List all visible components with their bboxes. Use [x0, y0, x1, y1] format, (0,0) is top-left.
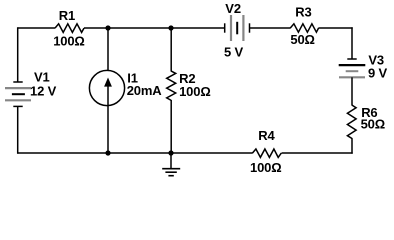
- svg-text:R1: R1: [59, 8, 75, 23]
- wire R2 branch bottom: [170, 100, 172, 153]
- junction node top of I1: [105, 25, 110, 30]
- wire left rail bottom: [17, 106, 19, 153]
- wire right rail R6 to bottom corner: [351, 138, 353, 154]
- svg-text:100Ω: 100Ω: [179, 84, 211, 99]
- current source I1: [89, 70, 124, 106]
- svg-text:100Ω: 100Ω: [250, 160, 282, 175]
- wire bottom rail right of R4: [282, 152, 353, 154]
- wire I1 branch bottom: [107, 106, 109, 153]
- resistor R6: [347, 105, 356, 138]
- wire bottom rail left of R4: [17, 152, 252, 154]
- battery V1: [5, 82, 31, 106]
- svg-text:9 V: 9 V: [368, 66, 388, 81]
- svg-text:V1: V1: [34, 70, 50, 85]
- svg-text:20mA: 20mA: [127, 83, 163, 98]
- wire right rail V3 to R6: [351, 77, 353, 105]
- wire top rail R1 to V2: [84, 27, 225, 29]
- svg-text:12 V: 12 V: [30, 84, 57, 99]
- junction node bottom of R2 / ground: [168, 150, 173, 155]
- svg-text:100Ω: 100Ω: [53, 34, 85, 49]
- wire top rail segment left of R1: [18, 27, 56, 29]
- wire top rail V2 to R3: [250, 27, 291, 29]
- resistor R3: [290, 24, 318, 32]
- wire right rail down to V3: [351, 27, 353, 59]
- svg-text:V2: V2: [225, 1, 241, 16]
- resistor R4: [252, 149, 281, 157]
- junction node bottom of I1: [105, 150, 110, 155]
- battery V2: [225, 15, 250, 41]
- svg-text:50Ω: 50Ω: [361, 117, 385, 132]
- svg-text:R3: R3: [295, 4, 311, 19]
- wire I1 branch top: [107, 28, 109, 71]
- battery V3: [339, 59, 366, 77]
- resistor R1: [55, 24, 84, 33]
- svg-text:5 V: 5 V: [224, 45, 244, 60]
- wire R2 branch top: [170, 28, 172, 72]
- junction node top of R2: [168, 25, 173, 30]
- svg-text:R4: R4: [258, 128, 275, 143]
- wire left rail top: [17, 27, 19, 82]
- svg-text:50Ω: 50Ω: [290, 32, 314, 47]
- resistor R2: [167, 71, 176, 100]
- ground symbol: [162, 153, 180, 176]
- wire top rail R3 to right corner: [319, 27, 353, 29]
